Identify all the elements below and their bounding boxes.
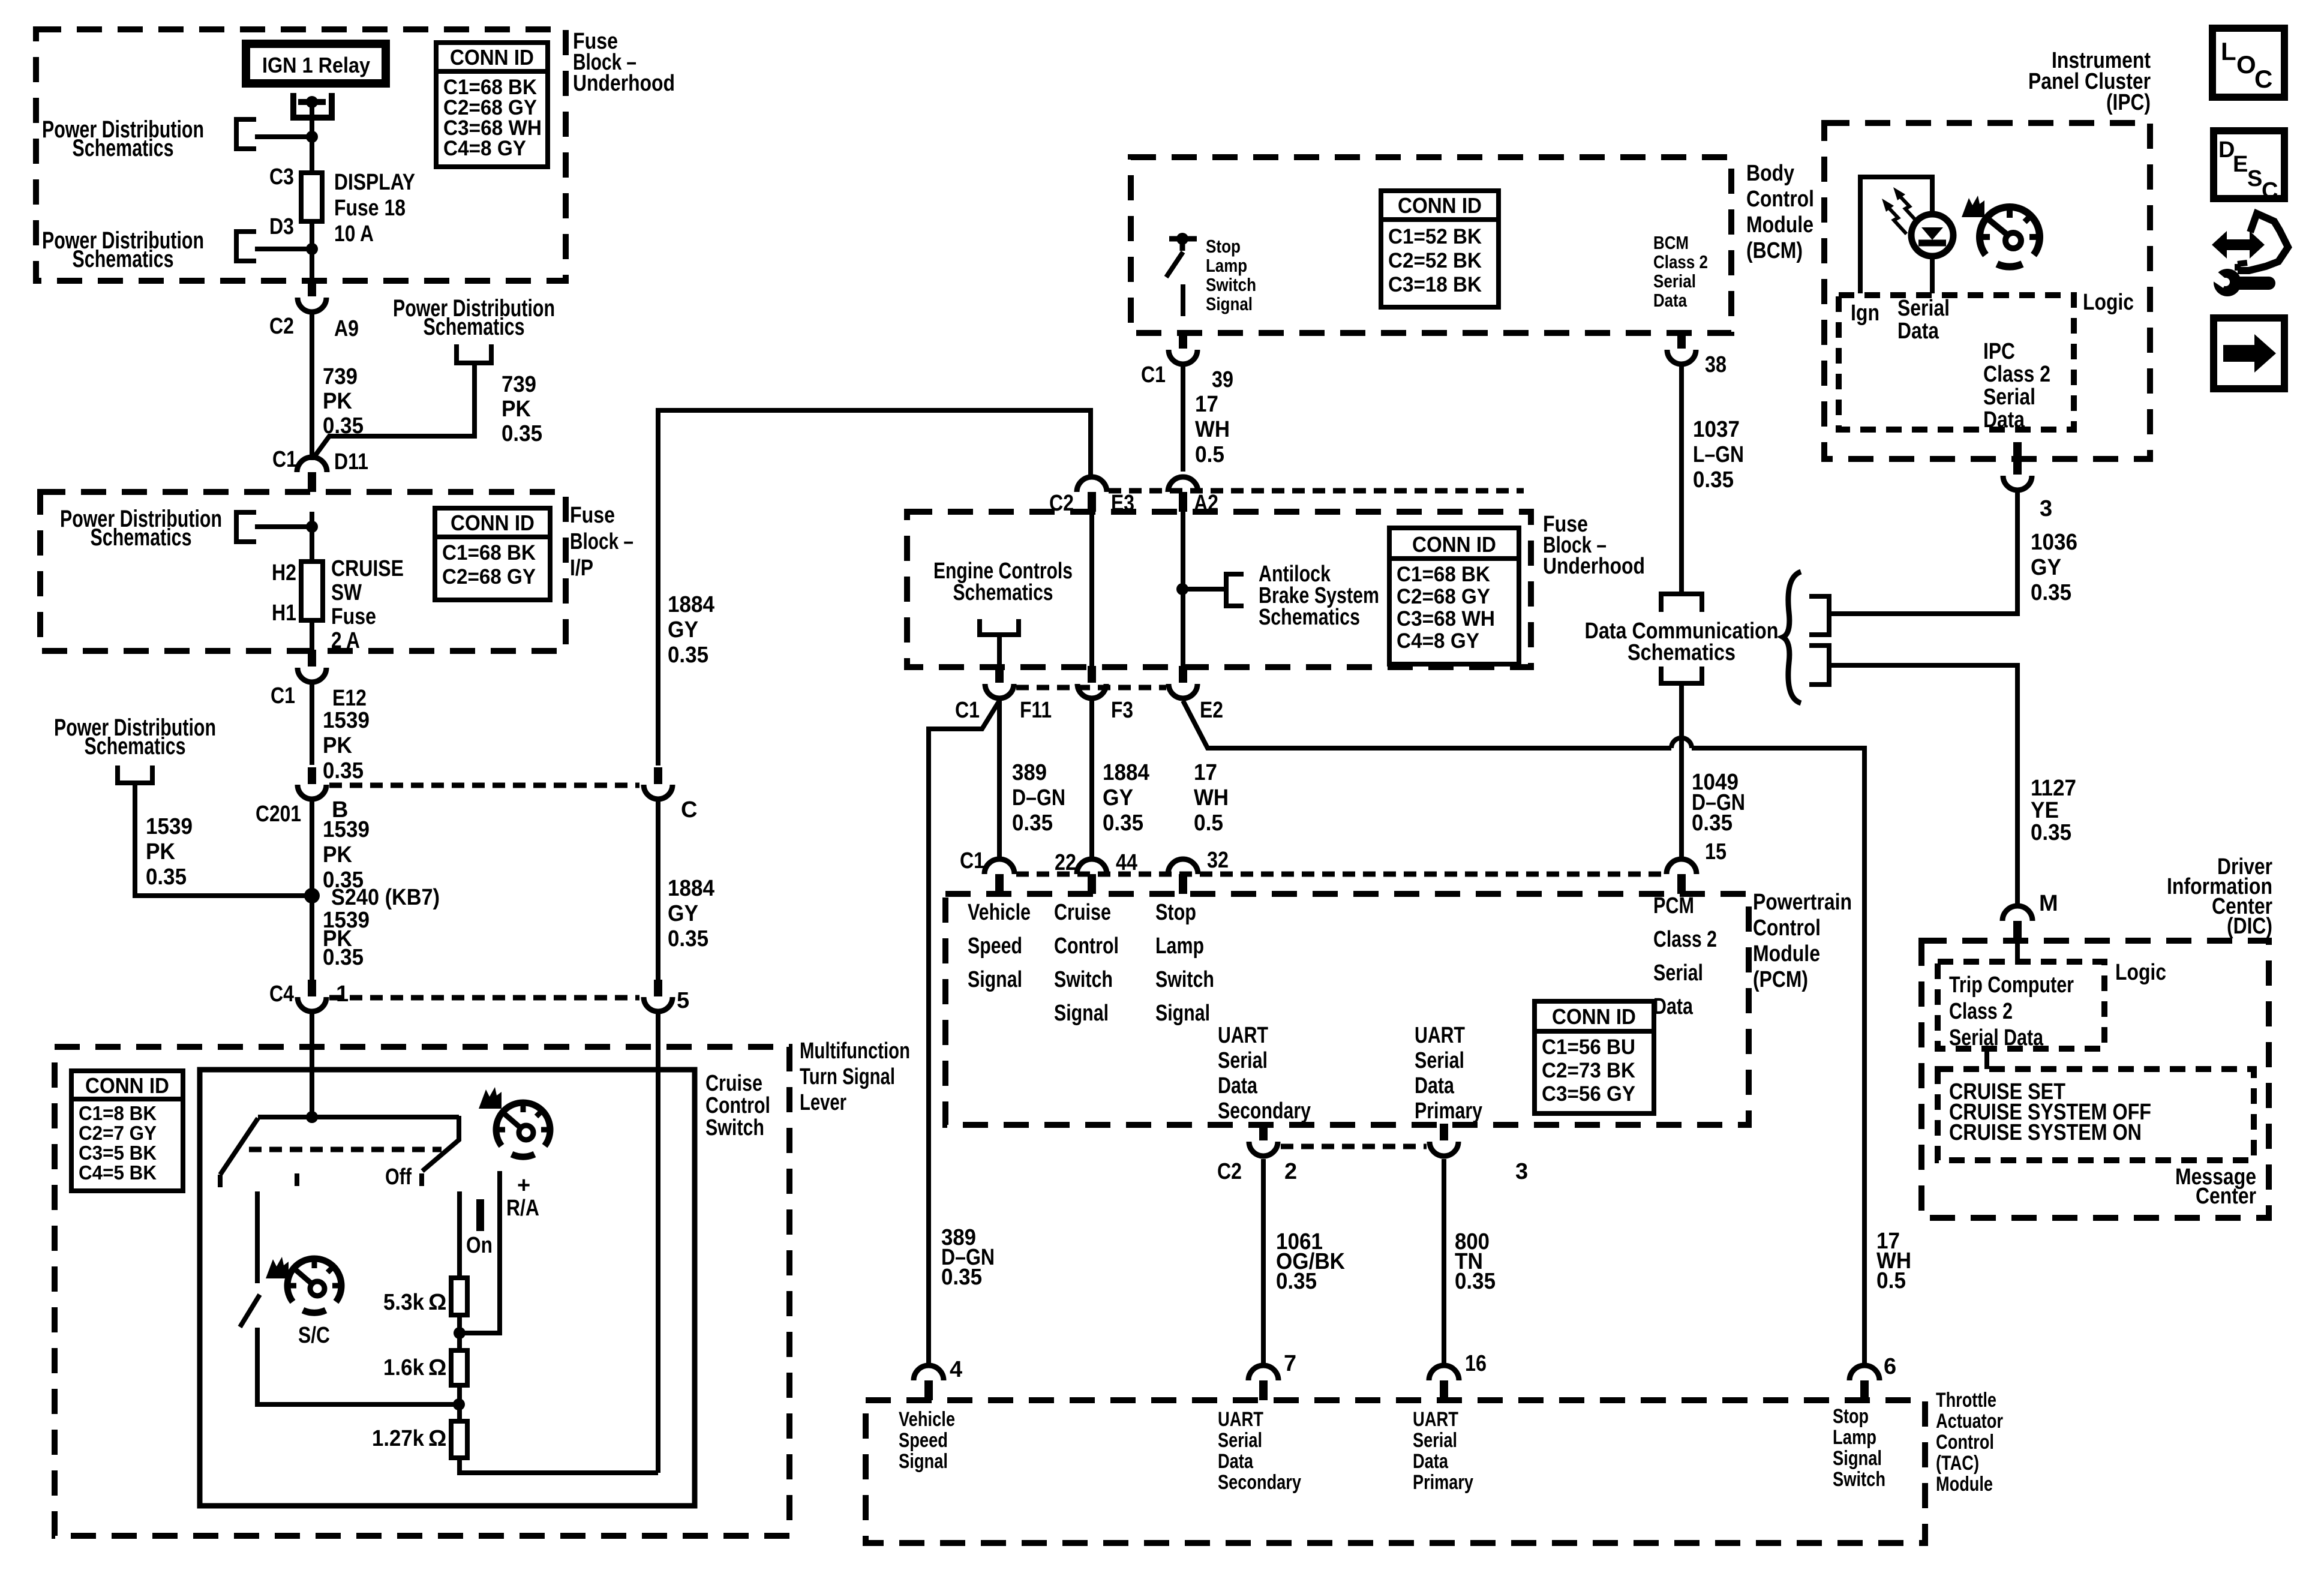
svg-text:C1=68 BK: C1=68 BK [1397,563,1490,586]
fuse F18 DISPLAY [301,173,322,221]
contact tick middle [295,1173,299,1186]
wire On branch [457,1191,462,1278]
trip computer dashed box [1938,962,2104,1049]
reference bracket IPC wire [1809,596,1829,635]
arrow into IPC gauge [1962,196,1984,217]
svg-text:0.5: 0.5 [1194,810,1223,836]
svg-text:C4=8 GY: C4=8 GY [1397,629,1479,653]
svg-text:Data: Data [1983,407,2025,433]
svg-text:C1=68 BK: C1=68 BK [442,541,536,565]
svg-text:Schematics: Schematics [91,524,192,551]
svg-text:0.35: 0.35 [1693,467,1734,493]
wire 1884 horizontal run [658,410,1091,766]
svg-text:1884: 1884 [668,876,714,901]
svg-text:Switch: Switch [1833,1468,1885,1491]
node junction to PDS-b [306,243,318,255]
wire 1061 OG/BK [1261,1159,1266,1365]
svg-text:Switch: Switch [1206,274,1256,295]
wire between resistors 1 [457,1315,462,1350]
relay terminal cup [293,93,332,118]
svg-text:0.5: 0.5 [1876,1268,1906,1293]
wire 389 diagonal [929,701,999,1365]
svg-text:Data: Data [1897,319,1939,344]
gauge icon IPC [1980,207,2040,267]
svg-text:Stop: Stop [1155,900,1196,925]
svg-text:C1: C1 [955,698,980,723]
svg-text:(PCM): (PCM) [1753,967,1808,992]
svg-text:C: C [2262,178,2278,203]
reference bracket datacomm top [1661,594,1702,612]
svg-text:Speed: Speed [899,1429,948,1452]
svg-text:Serial: Serial [1218,1048,1268,1073]
svg-text:17: 17 [1194,760,1217,785]
connector A2 [1168,477,1198,492]
svg-text:Logic: Logic [2083,290,2134,315]
svg-text:Schematics: Schematics [1259,605,1360,630]
fuse block underhood (top-left) dashed box [36,29,566,281]
wire to PDS-a bracket [255,134,312,139]
svg-text:C201: C201 [256,801,301,827]
svg-text:S240 (KB7): S240 (KB7) [331,885,440,910]
wire fuse to edge [310,620,314,650]
svg-text:Switch: Switch [705,1115,764,1140]
On terminal bar [476,1199,484,1231]
svg-text:Serial: Serial [1218,1429,1262,1452]
resistor 1.27k [451,1421,467,1458]
svg-text:0.35: 0.35 [502,421,542,446]
svg-text:Primary: Primary [1415,1098,1482,1124]
svg-text:Fuse: Fuse [570,503,615,528]
svg-text:CONN ID: CONN ID [450,45,534,70]
svg-text:GY: GY [1103,785,1133,810]
link trip-cruise boxes [1984,1049,1989,1069]
svg-text:7: 7 [1284,1351,1296,1376]
switch blade left [220,1118,258,1175]
connector C1-39 [1179,332,1187,349]
svg-text:H2: H2 [272,560,296,586]
svg-text:1539: 1539 [323,817,370,842]
reference bracket PDS-a [236,119,256,149]
svg-text:Control: Control [705,1093,770,1118]
svg-text:15: 15 [1705,839,1727,864]
svg-text:Cruise: Cruise [1054,900,1111,925]
svg-text:Signal: Signal [899,1450,948,1473]
svg-text:UART: UART [1415,1023,1465,1048]
svg-text:17: 17 [1195,392,1218,417]
svg-text:GY: GY [668,617,698,643]
svg-text:CRUISE: CRUISE [331,556,404,581]
relay K1 IGN 1 Relay box [246,44,386,83]
icon LOC box [2212,28,2284,97]
svg-text:CONN ID: CONN ID [85,1073,169,1098]
connector M [2002,906,2032,921]
svg-text:0.35: 0.35 [668,926,708,951]
svg-text:38: 38 [1705,352,1727,377]
svg-text:Control: Control [1936,1431,1994,1454]
svg-text:32: 32 [1207,848,1229,873]
svg-text:CRUISE SYSTEM ON: CRUISE SYSTEM ON [1949,1120,2142,1145]
connector 32 [1168,859,1198,874]
svg-text:Schematics: Schematics [73,246,174,272]
switch blade right (Off) [422,1116,459,1171]
svg-text:4: 4 [950,1357,962,1382]
switch coupling dashed line [249,1147,442,1152]
svg-text:CONN ID: CONN ID [1552,1004,1636,1029]
svg-text:C4: C4 [269,981,294,1007]
svg-text:UART: UART [1413,1408,1458,1431]
icon wrench-arrow [2212,231,2265,259]
svg-text:PK: PK [146,839,176,864]
reference bracket antilock [1226,574,1244,606]
svg-text:0.5: 0.5 [1195,442,1224,467]
wire ign1 down [310,102,314,280]
svg-text:Throttle: Throttle [1936,1389,1996,1412]
svg-text:Serial: Serial [1415,1048,1464,1073]
svg-text:C1=52 BK: C1=52 BK [1388,225,1482,248]
wire between resistors 2 [457,1385,462,1421]
switch S-C vertical upper [255,1191,260,1283]
svg-text:O: O [2236,50,2256,79]
svg-text:16: 16 [1465,1351,1487,1376]
svg-text:CONN ID: CONN ID [451,511,535,535]
svg-text:H1: H1 [272,601,296,626]
svg-text:Logic: Logic [2115,960,2166,985]
connector 3 (PCM) [1440,1124,1448,1140]
svg-text:Serial: Serial [1897,296,1950,321]
throttle actuator control dashed box [866,1400,1925,1543]
svg-text:Module: Module [1746,212,1813,238]
wire M into trip computer [2015,941,2020,962]
svg-text:Lamp: Lamp [1155,933,1204,959]
cruise control switch inner box [200,1070,695,1506]
svg-text:C3=56 GY: C3=56 GY [1542,1082,1635,1106]
connector C4-1 [308,980,316,996]
svg-text:0.35: 0.35 [1012,810,1053,836]
svg-text:C2=68 GY: C2=68 GY [442,565,536,589]
svg-text:Speed: Speed [968,933,1022,959]
svg-text:Underhood: Underhood [1543,554,1645,579]
connector row line C201 [329,783,639,788]
svg-text:1.27k: 1.27k [372,1426,425,1451]
svg-text:+: + [517,1173,530,1198]
svg-text:F11: F11 [1020,698,1052,723]
svg-text:CONN ID: CONN ID [1398,193,1482,218]
svg-text:Lever: Lever [800,1090,846,1115]
connector 5 (inline) [654,980,662,996]
svg-text:1539: 1539 [146,814,193,839]
svg-text:On: On [466,1233,493,1258]
connector row line PCM bottom [1281,1144,1427,1149]
wire switch common rail [258,1115,459,1119]
svg-text:WH: WH [1194,785,1229,810]
node junction to PDS-a [306,131,318,143]
connector 15 [1667,859,1697,874]
svg-text:PK: PK [323,842,353,867]
svg-text:Vehicle: Vehicle [899,1408,955,1431]
svg-text:C1: C1 [960,848,984,873]
wire 17 WH to TAC (right) [1692,748,1864,1365]
svg-text:Serial: Serial [1413,1429,1457,1452]
svg-text:PK: PK [323,389,353,414]
reference bracket DIC wire [1809,646,1829,685]
svg-text:C4=5 BK: C4=5 BK [79,1161,157,1184]
svg-text:Data: Data [1413,1450,1449,1473]
svg-text:Vehicle: Vehicle [968,900,1031,925]
icon arrow box [2214,318,2284,389]
svg-text:GY: GY [2031,555,2061,580]
connector row line F11-F3-E2 [1016,685,1166,691]
svg-text:Secondary: Secondary [1218,1098,1311,1124]
svg-text:1037: 1037 [1693,417,1740,442]
node switch common junction [306,1111,318,1123]
svg-text:Signal: Signal [1206,293,1253,314]
svg-text:Secondary: Secondary [1218,1471,1301,1494]
node junction R/A-5.3k [454,1327,466,1339]
svg-text:3: 3 [1515,1159,1528,1184]
gauge icon R/A [496,1103,550,1157]
svg-text:0.35: 0.35 [1692,810,1733,836]
svg-text:Stop: Stop [1206,236,1241,257]
svg-text:Fuse 18: Fuse 18 [334,196,406,221]
svg-text:0.35: 0.35 [1103,810,1143,836]
svg-text:Signal: Signal [1054,1001,1109,1026]
connector C1-F11 [995,666,1004,683]
connector 44 [1077,859,1107,874]
svg-text:I/P: I/P [570,556,593,581]
svg-text:Schematics: Schematics [73,135,174,161]
svg-text:Control: Control [1753,915,1821,941]
svg-text:1884: 1884 [668,592,714,617]
conn id box (BCM) [1381,191,1499,307]
svg-text:SW: SW [331,580,362,605]
svg-text:0.35: 0.35 [146,864,187,890]
svg-text:C3=18 BK: C3=18 BK [1388,273,1482,296]
fuse block underhood (middle) dashed box [907,512,1531,667]
svg-text:39: 39 [1212,367,1233,392]
svg-text:C1=56 BU: C1=56 BU [1542,1035,1635,1059]
wire 17 WH upper [1181,364,1185,472]
wire 800 TN [1442,1159,1446,1365]
powertrain control module dashed box [945,894,1749,1125]
svg-text:S: S [2247,166,2262,191]
connector C1-D11 [297,457,327,472]
svg-text:Schematics: Schematics [953,580,1053,605]
svg-text:1.6k: 1.6k [383,1355,425,1380]
svg-text:D3: D3 [269,214,294,239]
wire 1539 branch left [135,783,308,896]
fuse CRUISE SW 2A [301,562,323,620]
svg-text:2 A: 2 A [331,628,360,653]
svg-text:Switch: Switch [1155,967,1214,992]
contact tick left [218,1175,223,1187]
svg-text:IGN 1 Relay: IGN 1 Relay [262,53,370,77]
svg-text:739: 739 [502,372,536,397]
wire 1539 mid [310,800,314,980]
svg-text:UART: UART [1218,1023,1268,1048]
wire 739 branch [313,363,475,458]
svg-text:(DIC): (DIC) [2227,914,2272,939]
svg-text:(BCM): (BCM) [1746,238,1803,263]
reference bracket datacomm bottom [1661,667,1702,683]
svg-text:C3=68 WH: C3=68 WH [1397,607,1495,631]
svg-text:Trip Computer: Trip Computer [1949,972,2074,998]
svg-text:PK: PK [502,397,532,422]
svg-text:E: E [2233,152,2248,177]
svg-text:C3=5 BK: C3=5 BK [79,1142,157,1164]
svg-text:L–GN: L–GN [1693,442,1744,467]
svg-text:E12: E12 [332,686,367,711]
svg-text:E2: E2 [1200,698,1223,723]
svg-text:1036: 1036 [2031,530,2077,555]
svg-text:Module: Module [1936,1473,1993,1496]
wire 1539 upper [310,682,314,765]
body control module dashed box [1131,157,1731,333]
wire ign loop [1860,177,1932,293]
cruise messages dashed box [1938,1069,2254,1160]
svg-text:3: 3 [2040,496,2052,521]
svg-text:C1=8 BK: C1=8 BK [79,1102,157,1124]
svg-text:IPC: IPC [1983,339,2015,364]
node junction to PDS-d [306,521,318,533]
svg-text:Serial: Serial [1653,271,1696,292]
wire 17 WH through box [1181,512,1185,666]
svg-text:Primary: Primary [1413,1471,1473,1494]
svg-text:0.35: 0.35 [323,945,364,970]
node S240 splice [304,888,320,903]
svg-text:Data: Data [1218,1450,1254,1473]
reference bracket PDS-c [457,344,491,363]
wire into lever box [310,1012,314,1117]
wire to antilock bracket [1182,587,1226,592]
svg-text:1539: 1539 [323,708,370,733]
svg-text:Control: Control [1054,933,1119,959]
connector 38 (BCM) [1677,332,1686,349]
svg-text:Module: Module [1753,941,1820,966]
svg-text:Multifunction: Multifunction [800,1038,910,1064]
svg-text:Schematics: Schematics [424,314,525,340]
wire 17 WH to TAC [1183,701,1671,748]
wire 1884 into lever box [656,1012,660,1473]
svg-text:Actuator: Actuator [1936,1410,2003,1433]
svg-text:Stop: Stop [1833,1405,1869,1428]
svg-text:1: 1 [336,981,349,1007]
svg-text:389: 389 [1012,760,1047,785]
svg-text:Class 2: Class 2 [1983,362,2050,387]
stop lamp switch [1176,233,1188,245]
svg-text:UART: UART [1218,1408,1263,1431]
svg-text:Data: Data [1653,994,1694,1019]
wire 389 vertical to PCM [997,701,1002,859]
svg-text:PK: PK [323,733,353,758]
svg-text:BCM: BCM [1653,232,1689,253]
svg-text:Lamp: Lamp [1206,255,1247,276]
svg-text:0.35: 0.35 [941,1265,982,1290]
svg-text:Signal: Signal [1155,1001,1210,1026]
svg-text:0.35: 0.35 [2031,580,2071,605]
svg-text:Turn Signal: Turn Signal [800,1064,895,1089]
IPC logic dashed box [1839,295,2074,430]
conn id box (I/P) [435,508,550,600]
svg-text:10 A: 10 A [334,221,374,247]
svg-text:1884: 1884 [1103,760,1149,785]
svg-text:C1: C1 [272,447,297,472]
conn id box (top-left) [436,43,548,167]
svg-text:Signal: Signal [1833,1447,1882,1470]
driver information center dashed box [1921,941,2269,1218]
svg-text:S/C: S/C [298,1323,330,1348]
wire to PDS-b bracket [255,247,312,251]
wire 1037 L-GN [1679,364,1684,593]
wire hop over 1049 [1671,738,1692,748]
svg-text:Schematics: Schematics [85,733,186,760]
multifunction turn signal lever dashed box [55,1047,789,1536]
svg-text:Class 2: Class 2 [1949,999,2013,1024]
wire LED down [1930,256,1935,293]
svg-text:C2=7 GY: C2=7 GY [79,1122,157,1144]
svg-text:L: L [2221,37,2236,65]
svg-text:5: 5 [677,988,689,1013]
connector 6 [1849,1365,1879,1380]
conn id box (PCM) [1535,1001,1654,1113]
wire resistor output [460,1458,658,1473]
svg-text:Lamp: Lamp [1833,1426,1876,1449]
wire inside I/P [310,512,314,562]
connector E2 [1179,666,1187,683]
svg-text:Ω: Ω [428,1290,446,1315]
svg-text:DISPLAY: DISPLAY [334,170,415,195]
connector C2-E3 [1077,477,1107,492]
connector F3 [1088,666,1096,683]
svg-text:C3: C3 [269,164,294,190]
svg-text:Block –: Block – [570,529,633,554]
svg-text:C2: C2 [1217,1159,1242,1184]
LED indicator [1911,214,1953,256]
svg-text:C: C [2254,65,2272,93]
connector 3 (IPC) [2013,442,2022,475]
arrow into S/C gauge [266,1257,289,1278]
svg-text:0.35: 0.35 [668,643,708,668]
gauge icon S/C [287,1259,341,1313]
svg-text:Powertrain: Powertrain [1753,890,1852,915]
connector row line E3-A2 [1109,488,1524,494]
reference bracket PDS-d [236,512,256,542]
icon DESC box [2214,131,2284,199]
connector row line C4 [329,995,639,1001]
connector C2-2 [1259,1124,1268,1140]
svg-text:D11: D11 [334,449,368,475]
wire engine controls down [997,635,1002,666]
svg-text:Schematics: Schematics [1628,640,1736,665]
conn id box (middle) [1389,528,1519,664]
wire to PDS-d bracket [255,524,312,529]
svg-text:Serial: Serial [1653,960,1703,986]
fuse block I/P dashed box [40,492,566,651]
switch blade S-C [240,1295,260,1327]
svg-text:A9: A9 [334,316,359,341]
svg-text:0.35: 0.35 [1455,1269,1496,1294]
svg-text:(TAC): (TAC) [1936,1452,1979,1475]
svg-text:Ω: Ω [428,1355,446,1380]
svg-text:Data: Data [1218,1073,1258,1098]
svg-text:1127: 1127 [2031,776,2076,801]
instrument panel cluster dashed box [1824,123,2150,459]
svg-text:Data: Data [1653,290,1688,311]
wire 1884 vertical to PCM [1089,701,1094,859]
svg-text:M: M [2039,891,2058,916]
svg-text:Underhood: Underhood [573,71,675,96]
svg-text:Fuse: Fuse [331,604,376,629]
svg-text:Center: Center [2196,1184,2256,1209]
